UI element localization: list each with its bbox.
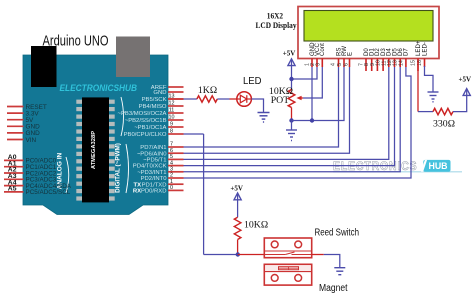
wire LCD LED- pin 16 to ground [425, 66, 434, 92]
Arduino UNO board U1 [23, 55, 168, 215]
wire Arduino D8 to reed switch node [184, 134, 238, 255]
svg-text:16X2: 16X2 [267, 12, 283, 21]
svg-text:PD1/TXD: PD1/TXD [142, 182, 167, 188]
svg-text:TX: TX [133, 182, 141, 188]
wire LED cathode to ground [251, 99, 263, 113]
svg-text:~PB2/SS/OC1B: ~PB2/SS/OC1B [125, 118, 167, 124]
svg-text:+5V: +5V [283, 50, 296, 58]
svg-text:~PD5/T1: ~PD5/T1 [143, 158, 166, 164]
svg-text:1: 1 [170, 179, 173, 185]
svg-text:PB5/SCK: PB5/SCK [142, 97, 167, 103]
wire LCD GND pin 1 to ground rail [311, 67, 313, 121]
svg-text:9: 9 [170, 122, 173, 128]
resistor R3 10K pull-up [234, 217, 241, 239]
svg-text:3: 3 [316, 63, 322, 66]
svg-text:6: 6 [344, 63, 350, 66]
wire +5V branch to LCD VCC pin 2 [292, 67, 318, 79]
svg-text:12: 12 [169, 101, 175, 107]
svg-text:330Ω: 330Ω [433, 119, 455, 130]
analog pin stubs A0-A5 [4, 154, 72, 196]
wire LCD LED+ pin 15 to resistor R4 [417, 59, 419, 112]
svg-text:DIGITAL (~PWM): DIGITAL (~PWM) [115, 143, 122, 193]
svg-text:2: 2 [170, 173, 173, 179]
DC power jack J1 [31, 46, 57, 87]
svg-text:PB0/CPU/CLKO: PB0/CPU/CLKO [124, 132, 167, 138]
ground (LED) [258, 113, 270, 123]
node junction +5V/VCC [289, 77, 293, 81]
LED D1 [237, 92, 252, 107]
svg-text:3: 3 [170, 167, 173, 173]
node +5V (pot supply) [283, 50, 296, 66]
svg-text:10KΩ: 10KΩ [244, 220, 268, 231]
svg-text:PD4/T0/XCK: PD4/T0/XCK [133, 164, 167, 170]
ELECTRONICSHUB silkscreen text [60, 83, 138, 94]
ground (pot / LCD GND / RW) [286, 121, 297, 141]
wire pot wiper to LCD Cont pin 3 [303, 67, 322, 98]
svg-text:Cont: Cont [319, 43, 326, 56]
wire Arduino D4 to LCD D5 pin 12 [184, 67, 395, 166]
svg-text:11: 11 [169, 108, 175, 114]
svg-text:PC5/ADC5/SCL: PC5/ADC5/SCL [26, 189, 71, 196]
LCD title label 16X2 LCD Display [256, 12, 298, 30]
svg-text:8: 8 [170, 129, 173, 135]
node junction pot bottom [289, 118, 293, 122]
potentiometer R2 10K POT [288, 90, 303, 108]
svg-text:7: 7 [170, 142, 173, 148]
wire pot bottom to ground rail [291, 108, 293, 121]
svg-text:PD0/RXD: PD0/RXD [141, 189, 167, 195]
svg-text:15: 15 [411, 60, 417, 66]
reed switch S1 [264, 238, 311, 258]
svg-text:RX: RX [133, 189, 141, 195]
svg-text:+5V: +5V [230, 185, 243, 193]
svg-text:10: 10 [169, 115, 175, 121]
Arduino UNO title label [43, 32, 109, 49]
svg-text:D7: D7 [403, 48, 410, 56]
node +5V (pull-up) [230, 185, 243, 200]
microcontroller IC ATMEGA328P [76, 97, 114, 202]
USB connector J2 [116, 37, 150, 78]
svg-text:GND: GND [153, 90, 166, 96]
wire R1 to LED D1 [217, 98, 229, 100]
svg-text:1KΩ: 1KΩ [198, 85, 217, 96]
svg-text:~PD6/AIN0: ~PD6/AIN0 [137, 151, 167, 157]
svg-text:LED-: LED- [421, 42, 428, 56]
node junction D8/R3/reed [236, 252, 240, 256]
ANALOG IN header label [57, 152, 69, 193]
svg-text:5: 5 [337, 63, 343, 66]
wire ground rail to LCD RW pin 5 [292, 67, 345, 121]
svg-text:ELECTRONICSHUB: ELECTRONICSHUB [60, 83, 138, 94]
wire node to reed switch [238, 254, 264, 256]
svg-text:ATMEGA328P: ATMEGA328P [91, 131, 97, 169]
svg-text:6: 6 [170, 148, 173, 154]
svg-text:0: 0 [170, 185, 173, 191]
resistor R1 1K [197, 96, 217, 102]
svg-text:5: 5 [170, 154, 173, 160]
svg-text:~PB1/OC1A: ~PB1/OC1A [134, 125, 166, 131]
svg-text:VIN: VIN [26, 137, 37, 144]
svg-text:POT: POT [271, 95, 290, 106]
svg-text:4: 4 [170, 160, 173, 166]
watermark ELECTRONICS HUB [333, 159, 462, 173]
svg-text:LCD Display: LCD Display [256, 21, 298, 30]
svg-text:~PB3/MOSI/OC2A: ~PB3/MOSI/OC2A [118, 111, 167, 117]
wire Arduino D5 to LCD D4 pin 11 [184, 67, 389, 159]
wire R3 to reed switch node [237, 240, 239, 255]
svg-text:14: 14 [398, 60, 404, 66]
wire reed switch to ground [312, 255, 340, 268]
wire Arduino D13 to resistor R1 [168, 98, 184, 100]
magnet M1 [264, 264, 311, 285]
node junction GND rail [310, 118, 314, 122]
right digital pin stubs and labels [118, 85, 184, 194]
svg-text:~PD3/INT1: ~PD3/INT1 [137, 170, 166, 176]
svg-text:HUB: HUB [428, 161, 447, 171]
svg-text:PD7/AIN1: PD7/AIN1 [140, 145, 166, 151]
svg-text:A5: A5 [8, 186, 17, 193]
wire Arduino D3 to LCD D6 pin 13 [184, 67, 401, 172]
resistor R4 330 [433, 108, 453, 114]
svg-text:LED: LED [243, 75, 262, 87]
node +5V (backlight) [459, 76, 472, 96]
ground (reed switch) [334, 268, 345, 275]
wire +5V to potentiometer top [291, 60, 293, 90]
LCD pin labels and pin number stubs [305, 40, 429, 71]
ground (LCD backlight) [428, 92, 439, 102]
label 10K POT [269, 86, 293, 106]
svg-text:PB4/MISO: PB4/MISO [139, 104, 167, 110]
svg-text:4: 4 [331, 63, 337, 66]
left power pin stubs and labels [7, 104, 47, 144]
svg-text:Magnet: Magnet [319, 283, 348, 294]
svg-text:E: E [346, 52, 353, 56]
DIGITAL (~PWM) header label [115, 97, 129, 193]
svg-text:+5V: +5V [459, 76, 472, 84]
svg-text:PD2/INT0: PD2/INT0 [141, 176, 168, 182]
LCD module LCD1 16x2 [298, 7, 439, 59]
svg-text:Reed Switch: Reed Switch [315, 228, 360, 239]
wire Arduino D6 to LCD E pin 6 [184, 67, 350, 153]
wire Arduino D2 to LCD D7 pin 14 [184, 67, 412, 178]
wire +5V to resistor R3 [237, 194, 239, 217]
wire R4 to +5V [453, 90, 467, 112]
wire Arduino D7 to LCD RS pin 4 [184, 67, 339, 147]
